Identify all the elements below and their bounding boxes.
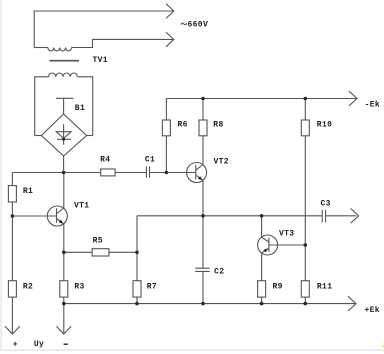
node rail R7 <box>135 302 139 306</box>
resistor R11 <box>301 281 309 297</box>
wire R1 branch <box>11 173 13 217</box>
arrowhead -Ek <box>349 91 357 106</box>
wire long horizontal to C3 <box>137 215 356 217</box>
VT3 collector diagonal <box>262 237 269 242</box>
svg-text:C3: C3 <box>321 200 331 209</box>
wire mid horizontal bridge/R4/C1 <box>12 172 195 174</box>
svg-text:TV1: TV1 <box>93 56 108 65</box>
wire R10 R11 column <box>304 99 306 304</box>
wire secondary right vertical <box>77 77 92 136</box>
svg-text:VT3: VT3 <box>279 229 294 238</box>
wire left stub to bridge <box>35 135 42 137</box>
resistor R3 <box>60 281 68 297</box>
wire R5 row <box>64 251 137 253</box>
resistor R1 <box>8 186 16 202</box>
VT1 base bar <box>56 208 58 223</box>
wire bridge output down <box>63 156 65 173</box>
capacitor C3 plates <box>322 210 325 223</box>
capacitor C1 plates <box>146 166 149 177</box>
resistor R2 <box>8 281 16 297</box>
svg-text:R6: R6 <box>178 121 188 130</box>
transistor VT1 circle <box>47 206 67 226</box>
label ~660V tilde <box>181 23 187 24</box>
resistor R4 <box>101 169 115 176</box>
resistor R8 <box>199 120 207 136</box>
svg-text:R3: R3 <box>74 283 84 292</box>
svg-text:Uy: Uy <box>34 340 44 349</box>
arrowhead down + terminal <box>5 326 20 334</box>
svg-text:VT1: VT1 <box>74 202 89 211</box>
VT2 emitter diagonal <box>196 175 203 181</box>
node bridge diode junction <box>62 138 65 141</box>
capacitor C2 plates <box>195 268 210 271</box>
svg-text:R2: R2 <box>23 283 33 292</box>
winding TV1 primary coil <box>48 48 72 51</box>
arrowhead down - terminal <box>56 326 71 334</box>
bridge rectifier B1 diamond <box>41 114 86 156</box>
wire right stub to bridge <box>87 135 93 137</box>
winding TV1 secondary coil <box>49 73 78 77</box>
VT1 emitter diagonal <box>57 219 64 225</box>
VT2 emitter arrow <box>198 176 202 180</box>
svg-text:R4: R4 <box>100 155 110 164</box>
bottom window border artifact <box>0 349 384 351</box>
svg-text:C1: C1 <box>145 155 155 164</box>
wire VT3 collector from long wire <box>261 216 263 237</box>
wire VT2 emitter down <box>202 181 204 269</box>
VT1 collector diagonal <box>57 208 64 214</box>
svg-text:-Ek: -Ek <box>365 101 380 110</box>
svg-text:+: + <box>13 340 18 349</box>
svg-text:+Ek: +Ek <box>365 306 380 315</box>
arrowhead primary top lead <box>166 4 174 19</box>
svg-text:R11: R11 <box>317 283 332 292</box>
resistor R7 <box>133 281 141 297</box>
VT3 base bar <box>268 238 270 252</box>
wire R2 branch down <box>11 216 13 334</box>
left window border artifact <box>0 0 2 349</box>
svg-text:R10: R10 <box>317 121 332 130</box>
svg-text:660V: 660V <box>188 20 209 29</box>
node R6 C1 junction <box>165 171 169 175</box>
diode inside B1 vertical line <box>63 124 65 145</box>
resistor R6 <box>162 120 170 136</box>
bridge B1 plus terminal T symbol <box>56 98 74 114</box>
VT3 emitter diagonal <box>262 248 269 253</box>
svg-text:R7: R7 <box>147 283 157 292</box>
wire R8 branch <box>202 99 204 165</box>
node rail C2 <box>201 302 205 306</box>
node VT3 base R10 R11 <box>304 243 308 247</box>
node R5 R7 <box>135 251 139 255</box>
wire primary top lead <box>34 11 173 48</box>
svg-text:VT2: VT2 <box>214 158 229 167</box>
transformer TV1 core bar <box>50 60 80 62</box>
svg-text:R8: R8 <box>213 121 223 130</box>
resistor R5 <box>92 249 109 256</box>
node VT2 emitter long wire <box>201 214 205 218</box>
wire bottom rail +Ek <box>64 303 355 305</box>
wire VT3 emitter down <box>261 253 263 304</box>
node R1 R2 base <box>11 214 15 218</box>
resistor R10 <box>301 120 309 136</box>
node VT3 collector long wire <box>260 214 264 218</box>
node rail R11 <box>304 302 308 306</box>
VT2 base bar <box>195 165 197 180</box>
wire R6 branch <box>165 99 167 173</box>
VT1 emitter arrow <box>59 220 63 224</box>
svg-text:R5: R5 <box>93 236 103 245</box>
node VT1 emitter R5 <box>62 251 66 255</box>
diode triangle <box>56 132 71 139</box>
wire VT1 base <box>12 215 56 217</box>
arrowhead primary bottom lead <box>166 32 174 47</box>
node bridge output <box>62 171 66 175</box>
node rail R9 <box>260 302 264 306</box>
wire primary bottom lead right with step <box>72 39 174 47</box>
arrowhead output after C3 <box>351 209 359 224</box>
node top rail R8 <box>201 97 205 101</box>
wire VT3 base to right <box>269 244 305 246</box>
svg-text:B1: B1 <box>75 104 85 113</box>
svg-text:R9: R9 <box>273 283 283 292</box>
resistor R9 <box>258 281 266 297</box>
yellow speck bottom right <box>382 345 384 348</box>
wire top rail -Ek <box>166 98 356 100</box>
transistor VT2 circle <box>187 163 207 183</box>
VT2 collector diagonal <box>196 165 203 171</box>
transistor VT3 circle <box>258 235 278 255</box>
node top rail R10 <box>304 97 308 101</box>
arrowhead +Ek <box>348 296 356 311</box>
label - terminal dash <box>64 343 68 345</box>
svg-text:R1: R1 <box>23 187 33 196</box>
wire secondary left vertical <box>35 77 49 136</box>
wire C2 to bottom rail <box>202 272 204 304</box>
node rail R3 <box>62 302 66 306</box>
wire primary bottom lead left <box>34 47 48 49</box>
diode cathode bar <box>57 138 71 140</box>
VT3 emitter arrow (PNP, pointing to bar) <box>264 249 268 253</box>
svg-text:C2: C2 <box>214 268 224 277</box>
wire R3 branch down <box>63 252 65 334</box>
wire R7 branch down <box>136 216 138 304</box>
wire VT1 emitter down <box>63 224 65 252</box>
wire VT1 collector up <box>63 173 65 209</box>
